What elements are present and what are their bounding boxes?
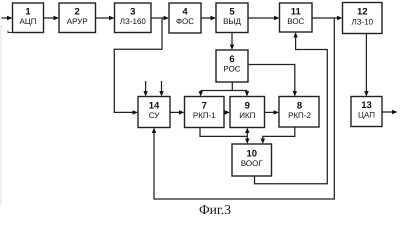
svg-text:3: 3 [130, 7, 135, 18]
svg-text:6: 6 [229, 54, 234, 65]
svg-text:ВЫД: ВЫД [223, 17, 241, 26]
svg-text:1: 1 [25, 7, 31, 18]
bidirectional wire block 9 and block 10 [245, 128, 249, 145]
svg-text:ЛЗ-160: ЛЗ-160 [120, 17, 147, 26]
block 8 РКП-2 [279, 97, 319, 128]
scan speck below block 1 [8, 31, 13, 33]
wire block 8 bottom to block 10 [261, 127, 295, 144]
svg-text:9: 9 [245, 101, 250, 112]
svg-text:ИКП: ИКП [239, 111, 255, 120]
wire block 6 bottom distribution to blocks 7 and 9 [199, 82, 250, 97]
wire block 11 to block 12 [312, 16, 343, 20]
wire block 2 to block 3 [96, 16, 115, 20]
input wire into block 1 [2, 16, 13, 20]
output wire from block 13 [382, 110, 398, 114]
svg-text:РОС: РОС [223, 65, 240, 74]
wire block 12 to block 13 [364, 34, 368, 97]
wire block 7 bottom loop to node under 9 [200, 128, 247, 137]
wire block 9 to block 8 [265, 110, 280, 114]
block 13 ЦАП [351, 97, 382, 127]
svg-text:РКП-2: РКП-2 [288, 111, 311, 120]
svg-text:ЦАП: ЦАП [358, 111, 375, 120]
svg-text:ВОС: ВОС [287, 17, 304, 26]
block 11 ВОС [280, 3, 313, 32]
svg-text:ВООГ: ВООГ [241, 159, 264, 168]
wire block 5 to block 11 [248, 16, 280, 20]
svg-text:АЦП: АЦП [19, 17, 36, 26]
svg-text:12: 12 [357, 7, 368, 18]
wire block 6 right to block 8 [248, 65, 297, 97]
wire block 14 to block 7 [170, 110, 185, 114]
block 4 ФОС [169, 3, 201, 33]
svg-text:5: 5 [229, 7, 235, 18]
block 5 ВЫД [216, 3, 248, 33]
block 3 ЛЗ-160 [115, 3, 152, 33]
block 12 ЛЗ-10 [343, 3, 383, 34]
svg-text:СУ: СУ [149, 111, 161, 120]
wire branch from 3-4 line to block 14 [114, 18, 162, 115]
svg-text:ЛЗ-10: ЛЗ-10 [351, 18, 373, 27]
scan border left edge [0, 25, 2, 205]
svg-text:2: 2 [75, 7, 80, 18]
svg-text:10: 10 [247, 149, 258, 160]
wire block 1 to block 2 [44, 16, 60, 20]
feedback wire from 11-12 line to block 14 [152, 18, 334, 199]
external input stub A into block 14 [143, 81, 147, 97]
block 6 РОС [216, 50, 248, 82]
svg-text:Фиг.3: Фиг.3 [199, 202, 231, 217]
svg-text:ФОС: ФОС [176, 17, 194, 26]
wire block 5 to block 6 [230, 33, 234, 51]
svg-text:8: 8 [297, 101, 302, 112]
feedback wire block 10 to block 11 [255, 32, 328, 184]
svg-text:РКП-1: РКП-1 [193, 111, 216, 120]
caption Фиг.3 [199, 202, 231, 217]
svg-text:АРУР: АРУР [67, 17, 88, 26]
block 1 АЦП [13, 3, 44, 33]
svg-text:4: 4 [182, 7, 188, 18]
block 10 ВООГ [232, 144, 272, 176]
svg-text:7: 7 [202, 101, 207, 112]
block 9 ИКП [230, 97, 265, 128]
wire block 4 to block 5 [201, 16, 216, 20]
block 2 АРУР [59, 3, 96, 33]
svg-text:13: 13 [361, 100, 372, 111]
block 7 РКП-1 [185, 97, 225, 128]
wire block 7 to block 9 [224, 110, 230, 114]
block 14 СУ [138, 97, 170, 128]
svg-text:11: 11 [291, 7, 302, 18]
external input stub B into block 14 [159, 81, 163, 97]
wire block 3 to block 4 [151, 16, 169, 20]
svg-text:14: 14 [149, 101, 160, 112]
